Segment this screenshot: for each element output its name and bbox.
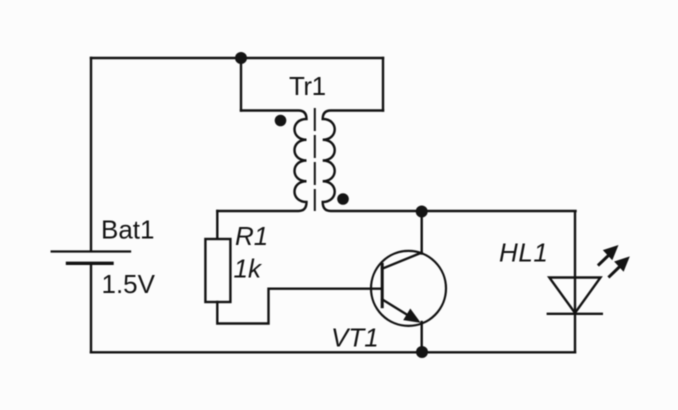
transistor VT1 base bar [381, 264, 384, 306]
transistor VT1 collector line [382, 253, 422, 269]
wire bottom rail [91, 351, 575, 353]
transistor VT1 emitter arrowhead [403, 309, 421, 323]
LED HL1 cathode bar [548, 313, 602, 315]
LED HL1 emission arrow 1 head [603, 245, 619, 260]
battery Bat1 long positive plate [52, 250, 130, 252]
LED HL1 emission arrow 2 head [614, 256, 630, 271]
wire top from battery plus to transformer box [91, 57, 383, 59]
transistor VT1 circle [371, 251, 446, 326]
wire emitter to bottom rail [421, 322, 423, 352]
transformer Tr1 box right side wire [382, 58, 384, 111]
svg-text:Bat1: Bat1 [101, 215, 155, 245]
svg-text:1.5V: 1.5V [102, 269, 156, 299]
svg-text:1k: 1k [234, 253, 263, 283]
transistor VT1 emitter line [382, 299, 414, 319]
wire left side battery branch lower [90, 263, 92, 352]
wire resistor top lead [216, 211, 218, 239]
svg-text:Tr1: Tr1 [289, 71, 326, 101]
svg-text:R1: R1 [235, 221, 268, 251]
transformer Tr1 primary winding [217, 111, 306, 212]
LED HL1 emission arrow 2 shaft [610, 267, 620, 277]
wire collector from junction to transistor [421, 212, 423, 254]
transformer Tr1 secondary winding [323, 111, 576, 212]
transformer phase dot primary [275, 115, 287, 127]
svg-text:HL1: HL1 [499, 238, 549, 268]
wire left side battery branch upper [90, 58, 92, 251]
svg-text:VT1: VT1 [331, 322, 379, 352]
wire LED branch vertical [574, 212, 576, 352]
LED HL1 emission arrow 1 shaft [599, 255, 609, 264]
transformer Tr1 core [314, 109, 316, 210]
node junction emitter-bottom rail [416, 346, 428, 358]
resistor R1 body [205, 239, 230, 302]
transformer phase dot secondary [337, 193, 349, 205]
wire resistor bottom to transistor base [217, 289, 381, 324]
node junction battery-transformer top [235, 52, 247, 64]
transformer Tr1 box left side wire [240, 58, 242, 111]
LED HL1 triangle anode [549, 278, 600, 314]
battery Bat1 short negative plate [68, 262, 113, 265]
node junction secondary-collector [416, 206, 428, 218]
